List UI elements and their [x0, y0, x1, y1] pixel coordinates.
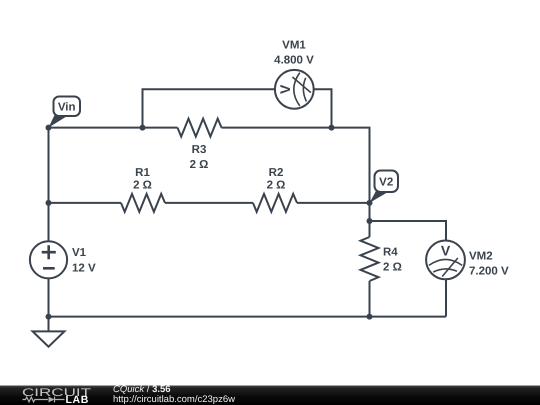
voltmeter VM1: [275, 70, 314, 109]
svg-text:V: V: [441, 242, 451, 258]
voltage source V1: [30, 241, 67, 278]
footer logo squiggle: [23, 397, 65, 403]
junction V1 top tap: [46, 200, 52, 206]
wire VM2 bottom: [445, 279, 447, 316]
resistor R2: [253, 194, 297, 212]
wire R4 bottom: [369, 281, 371, 317]
wire VM2 top branch: [370, 221, 447, 241]
svg-text:VM1: VM1: [282, 40, 306, 52]
svg-text:7.200 V: 7.200 V: [469, 266, 509, 278]
svg-text:2 Ω: 2 Ω: [383, 262, 402, 274]
footer bar: [0, 386, 540, 405]
svg-text:R4: R4: [383, 247, 398, 259]
voltmeter VM2: [426, 241, 465, 280]
svg-text:2 Ω: 2 Ω: [267, 180, 286, 192]
label R2 value: [267, 167, 286, 192]
wire VM1 branch left: [143, 89, 275, 127]
svg-text:V: V: [277, 84, 293, 94]
label R3 value: [190, 144, 209, 171]
junction VM1 right tap: [329, 125, 335, 131]
wire V1 bottom to ground: [48, 278, 50, 331]
svg-text:http://circuitlab.com/c23pz6w: http://circuitlab.com/c23pz6w: [113, 394, 235, 405]
junction node Vin corner: [46, 125, 52, 131]
ground: [33, 331, 65, 346]
svg-text:4.800 V: 4.800 V: [274, 55, 314, 67]
wire top horizontal from Vin node to R3: [49, 127, 178, 129]
label R1 value: [133, 167, 152, 192]
resistor R1: [121, 194, 165, 212]
label VM1 value: [274, 40, 314, 67]
svg-text:2 Ω: 2 Ω: [190, 159, 209, 171]
junction ground tap: [46, 314, 52, 320]
resistor R3: [178, 119, 222, 137]
label VM2 value: [469, 251, 509, 278]
junction VM2 top tap: [367, 218, 373, 224]
svg-text:LAB: LAB: [66, 394, 89, 405]
wire middle row to R1: [49, 202, 122, 204]
svg-text:V1: V1: [72, 247, 87, 259]
wire R1 to R2: [165, 202, 253, 204]
junction node V2 corner: [367, 200, 373, 206]
wire left vertical Vin to V1: [48, 128, 50, 242]
junction R4 bottom tap: [367, 314, 373, 320]
wire V2 node down to R4: [369, 203, 371, 237]
label R4 value: [383, 247, 402, 274]
wire from R3 to right corner: [222, 128, 370, 203]
junction VM1 left tap: [140, 125, 146, 131]
wire bottom rail: [49, 316, 447, 318]
svg-text:Vin: Vin: [58, 102, 76, 114]
wire VM1 branch right: [314, 89, 332, 127]
svg-text:2 Ω: 2 Ω: [133, 180, 152, 192]
svg-text:VM2: VM2: [469, 251, 493, 263]
svg-text:R3: R3: [192, 144, 207, 156]
resistor R4: [361, 237, 379, 281]
svg-text:V2: V2: [379, 177, 393, 189]
node flag V2: [370, 171, 399, 203]
label V1 value: [72, 247, 96, 275]
svg-text:R2: R2: [269, 167, 284, 179]
wire R2 to V2 node: [297, 202, 370, 204]
svg-text:R1: R1: [135, 167, 150, 179]
node flag Vin: [49, 97, 81, 128]
svg-text:12 V: 12 V: [72, 263, 96, 275]
